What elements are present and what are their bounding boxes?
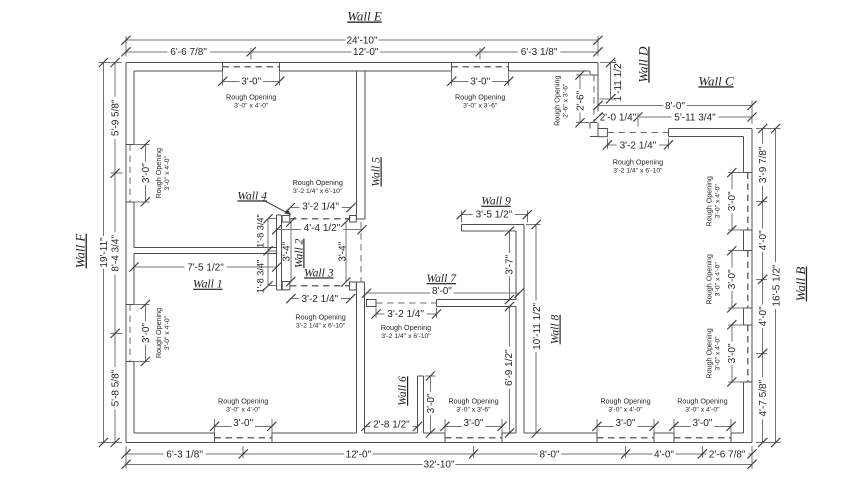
svg-text:8'-0": 8'-0" xyxy=(665,101,685,112)
svg-text:2'-6 7/8": 2'-6 7/8" xyxy=(709,449,746,460)
svg-text:3'-2 1/4": 3'-2 1/4" xyxy=(387,309,424,320)
wall C stub block next to wall D xyxy=(598,129,607,137)
svg-text:Rough Opening: Rough Opening xyxy=(704,254,713,304)
wall F opening 1 dashed center + caps xyxy=(129,145,131,202)
svg-text:Rough Opening: Rough Opening xyxy=(226,93,276,102)
svg-text:Wall B: Wall B xyxy=(793,267,808,302)
svg-text:3'-0" x 4'-0": 3'-0" x 4'-0" xyxy=(608,406,643,413)
wall 1 (horizontal) xyxy=(134,247,277,249)
wall 3 right block xyxy=(350,282,357,290)
svg-text:5'-8 5/8": 5'-8 5/8" xyxy=(111,369,122,406)
wall 7 block at left end xyxy=(367,300,377,307)
dim 12-0 xyxy=(352,46,380,57)
svg-text:Rough Opening: Rough Opening xyxy=(677,396,727,405)
svg-text:6'-3 1/8": 6'-3 1/8" xyxy=(166,449,203,460)
wall 4 opening dashed center xyxy=(290,218,350,220)
svg-text:3'-0" x 3'-6": 3'-0" x 3'-6" xyxy=(463,103,498,110)
dim column left inner xyxy=(114,63,116,443)
svg-text:3'-0": 3'-0" xyxy=(692,418,712,429)
svg-text:3'-0" x 4'-0": 3'-0" x 4'-0" xyxy=(685,406,720,413)
wall B inner face segments xyxy=(743,137,745,173)
bottom wall opening 3 dashed + caps xyxy=(597,437,654,439)
dim 3-4 right (square) xyxy=(345,222,347,282)
rough opening label wall F xyxy=(154,308,171,358)
svg-text:3'-0": 3'-0" xyxy=(141,163,152,183)
dim 6-3 1/8 xyxy=(518,46,560,57)
dim 6-9 1/2 (wall 7 to bottom) xyxy=(509,307,511,434)
label Wall 2 xyxy=(292,238,305,268)
wall 7 opening dashed center xyxy=(376,302,437,304)
wall 9 (horizontal) xyxy=(461,224,524,226)
svg-text:2'-6": 2'-6" xyxy=(575,90,586,110)
svg-text:3'-0" x 4'-0": 3'-0" x 4'-0" xyxy=(164,155,171,190)
label Wall 5 xyxy=(370,157,383,187)
svg-text:Wall 6: Wall 6 xyxy=(396,376,409,406)
bottom wall outer face xyxy=(126,442,752,444)
svg-text:3'-9 7/8": 3'-9 7/8" xyxy=(758,146,769,183)
bottom dim row 1 xyxy=(126,453,752,455)
dim 8-0 (wall C overall) xyxy=(598,104,752,106)
wall E opening 2 (3-0 x 3-6) dashed center + caps xyxy=(452,66,509,68)
dim 2-6 (wall D opening) xyxy=(576,74,589,76)
svg-text:Rough Opening: Rough Opening xyxy=(218,396,268,405)
wall 3 left block xyxy=(282,282,290,290)
svg-text:3'-5 1/2": 3'-5 1/2" xyxy=(476,209,513,220)
svg-text:19'-11": 19'-11" xyxy=(99,237,110,268)
wall 6 (short vertical) xyxy=(417,376,419,433)
extension lines top corners xyxy=(125,36,127,57)
wall F inner face segments xyxy=(133,71,135,145)
wall E inner face segments xyxy=(134,70,223,72)
svg-text:3'-0" x 4'-0": 3'-0" x 4'-0" xyxy=(234,103,269,110)
svg-text:3'-7": 3'-7" xyxy=(505,254,516,274)
wall F opening 2 dashed center + caps xyxy=(129,305,131,362)
svg-text:3'-2 1/4": 3'-2 1/4" xyxy=(620,140,657,151)
label Wall D xyxy=(635,46,650,83)
svg-text:8'-0": 8'-0" xyxy=(432,286,452,297)
dim 3-2 1/4 (wall 3 opening) xyxy=(291,298,351,300)
svg-text:3'-0": 3'-0" xyxy=(727,343,738,363)
svg-text:Wall 4: Wall 4 xyxy=(237,189,267,202)
svg-text:3'-0" x 4'-0": 3'-0" x 4'-0" xyxy=(226,406,261,413)
wall E opening 1 (3-0 x 4-0) dashed center + caps xyxy=(223,66,280,68)
wall F outer face xyxy=(125,63,127,443)
svg-text:3'-2 1/4" x 6'-10": 3'-2 1/4" x 6'-10" xyxy=(293,188,343,195)
svg-text:3'-0" x 3'-6": 3'-0" x 3'-6" xyxy=(456,406,491,413)
svg-text:3'-0": 3'-0" xyxy=(141,323,152,343)
dim 19-11 (left overall) xyxy=(102,63,104,443)
svg-text:2'-0 1/4": 2'-0 1/4" xyxy=(600,112,637,123)
svg-text:Wall 3: Wall 3 xyxy=(304,266,334,279)
svg-text:Rough Opening: Rough Opening xyxy=(381,323,431,332)
svg-text:3'-2 1/4" x 6'-10": 3'-2 1/4" x 6'-10" xyxy=(613,168,663,175)
svg-text:3'-0" x 4'-0": 3'-0" x 4'-0" xyxy=(714,336,721,371)
svg-text:10'-11 1/2": 10'-11 1/2" xyxy=(532,302,543,349)
svg-text:3'-4": 3'-4" xyxy=(282,241,293,261)
svg-text:7'-5 1/2": 7'-5 1/2" xyxy=(187,262,224,273)
svg-text:3'-0": 3'-0" xyxy=(426,393,437,413)
dim 24-10 (top overall) xyxy=(126,39,598,41)
wall 2 (vertical solid) xyxy=(276,215,278,290)
wall B outer face xyxy=(751,129,753,443)
wall B opening 2 dashed + caps xyxy=(747,251,749,308)
svg-text:16'-5 1/2": 16'-5 1/2" xyxy=(771,264,782,307)
svg-text:5'-11 3/4": 5'-11 3/4" xyxy=(674,112,716,123)
svg-text:6'-6 7/8": 6'-6 7/8" xyxy=(170,47,207,58)
svg-text:8'-4 3/4": 8'-4 3/4" xyxy=(111,235,122,272)
wall B opening dims 3-0 x3 xyxy=(728,172,744,174)
wall 8 (vertical) xyxy=(515,231,517,300)
svg-text:Rough Opening: Rough Opening xyxy=(293,178,343,187)
wall D inner face segments xyxy=(589,71,591,75)
svg-text:3'-2 1/4": 3'-2 1/4" xyxy=(302,294,339,305)
bottom opening dims 3-0 x4 xyxy=(214,419,216,433)
svg-text:Rough Opening: Rough Opening xyxy=(154,308,163,358)
svg-text:2'-8 1/2": 2'-8 1/2" xyxy=(373,420,410,431)
svg-text:24'-10": 24'-10" xyxy=(346,36,377,47)
dim 16-5 1/2 (right overall) xyxy=(775,129,777,443)
svg-text:Wall 7: Wall 7 xyxy=(427,272,458,285)
dim 10-11 1/2 (wall 8) xyxy=(535,225,537,434)
bottom wall opening 2 dashed + caps xyxy=(445,437,502,439)
wall F opening dims 3-0 x2 xyxy=(134,144,150,146)
svg-text:Wall E: Wall E xyxy=(347,8,382,23)
svg-text:3'-0": 3'-0" xyxy=(727,191,738,211)
svg-text:3'-4": 3'-4" xyxy=(338,241,349,261)
svg-text:4'-0": 4'-0" xyxy=(758,230,769,250)
svg-text:4'-0": 4'-0" xyxy=(654,449,674,460)
svg-text:Wall 2: Wall 2 xyxy=(292,238,305,268)
lower vertical wall xyxy=(355,282,357,433)
svg-text:4'-0": 4'-0" xyxy=(758,306,769,326)
svg-text:Rough Opening: Rough Opening xyxy=(154,148,163,198)
svg-text:4'-7 5/8": 4'-7 5/8" xyxy=(758,379,769,416)
svg-text:1'-8 3/4": 1'-8 3/4" xyxy=(255,260,265,294)
wall D outer face xyxy=(597,63,599,137)
svg-text:3'-0": 3'-0" xyxy=(464,418,484,429)
label Wall 6 xyxy=(396,376,409,406)
extension line right of wall C corner xyxy=(751,101,753,125)
rough opening label wall F xyxy=(154,148,171,198)
dim 2-8 1/2 (to wall 6) xyxy=(366,425,418,427)
dim column right inner xyxy=(762,129,764,443)
svg-text:Wall D: Wall D xyxy=(635,46,650,83)
svg-text:3'-0" x 4'-0": 3'-0" x 4'-0" xyxy=(164,315,171,350)
dim 8-0 (wall 7) xyxy=(367,292,520,294)
wall B opening 3 dashed + caps xyxy=(747,325,749,382)
svg-text:Rough Opening: Rough Opening xyxy=(704,328,713,378)
wall 4 left block xyxy=(282,216,290,223)
svg-text:Rough Opening: Rough Opening xyxy=(553,76,562,126)
dim 3-7 (wall 9 to wall 7) xyxy=(509,231,511,300)
svg-text:Wall 5: Wall 5 xyxy=(370,157,383,187)
svg-text:Wall C: Wall C xyxy=(698,73,734,88)
extension lines bottom corners xyxy=(125,446,127,469)
svg-text:Wall 9: Wall 9 xyxy=(481,195,511,208)
wall 7 solid segment xyxy=(437,299,517,301)
svg-text:1'-8 3/4": 1'-8 3/4" xyxy=(255,214,265,248)
wall C opening (3-2 1/4 x 6-10) dashed center xyxy=(607,132,668,134)
dim 3-4 left (square) xyxy=(290,222,292,282)
svg-text:Wall F: Wall F xyxy=(73,233,88,269)
dim 3-2 1/4 (wall 4 opening) xyxy=(290,207,351,209)
dim 1-8 3/4 pair (left of wall 2) xyxy=(267,219,269,286)
extension lines right corners xyxy=(756,128,781,130)
svg-text:3'-0" x 4'-0": 3'-0" x 4'-0" xyxy=(714,184,721,219)
wall 4 right block xyxy=(350,216,357,223)
dim line top row 2 xyxy=(126,51,598,53)
dim 3-0 (wall 6 length) xyxy=(429,376,431,433)
rough opening label wall B xyxy=(704,328,721,378)
label Wall F xyxy=(73,233,88,269)
svg-text:32'-10": 32'-10" xyxy=(423,460,454,471)
rough opening label wall D xyxy=(553,76,570,126)
dim 3-2 1/4 (wall C opening) xyxy=(606,139,608,150)
svg-text:5'-9 5/8": 5'-9 5/8" xyxy=(111,99,122,136)
svg-text:3'-0": 3'-0" xyxy=(233,418,253,429)
svg-text:3'-0" x 4'-0": 3'-0" x 4'-0" xyxy=(714,262,721,297)
svg-text:12'-0": 12'-0" xyxy=(346,449,372,460)
svg-text:Rough Opening: Rough Opening xyxy=(704,176,713,226)
svg-text:3'-0": 3'-0" xyxy=(470,77,490,88)
leader line wall 4 xyxy=(263,200,290,214)
svg-text:3'-2 1/4" x 6'-10": 3'-2 1/4" x 6'-10" xyxy=(296,322,346,329)
square room right opening dashed center (in wall 5 line) xyxy=(360,222,362,282)
wall E outer face xyxy=(126,62,598,64)
bottom wall opening 1 dashed + caps xyxy=(215,437,272,439)
wall 5 (vertical from wall E) xyxy=(356,71,358,219)
svg-text:6'-3 1/8": 6'-3 1/8" xyxy=(521,47,558,58)
dim 4-4 1/2 (square width) xyxy=(277,229,362,231)
svg-text:8'-0": 8'-0" xyxy=(540,449,560,460)
svg-text:3'-0": 3'-0" xyxy=(616,418,636,429)
wall C solid segment xyxy=(668,128,752,130)
svg-text:Rough Opening: Rough Opening xyxy=(600,396,650,405)
svg-text:Rough Opening: Rough Opening xyxy=(455,93,505,102)
bottom wall inner face segments xyxy=(134,432,215,434)
wall D opening (2-6 x 3-6) dashed + caps xyxy=(593,75,595,123)
dim 1-11 1/2 (wall D) xyxy=(600,62,615,64)
wall E opening 2 dim 3-0 xyxy=(451,71,453,86)
wall 3 opening dashed center xyxy=(290,285,350,287)
svg-text:3'-2 1/4": 3'-2 1/4" xyxy=(302,202,339,213)
svg-text:6'-9 1/2": 6'-9 1/2" xyxy=(504,349,515,386)
dim 3-2 1/4 (wall 7 opening) xyxy=(375,308,377,319)
svg-text:4'-4 1/2": 4'-4 1/2" xyxy=(304,223,341,234)
svg-text:3'-0": 3'-0" xyxy=(241,77,261,88)
svg-text:Wall 8: Wall 8 xyxy=(549,315,562,345)
wall D bottom cap xyxy=(590,136,598,138)
wall E opening 1 dim 3-0 xyxy=(222,71,224,86)
svg-text:12'-0": 12'-0" xyxy=(353,47,379,58)
rough opening label wall B xyxy=(704,176,721,226)
dim 2-0 1/4 and 5-11 3/4 xyxy=(598,116,752,118)
tick marks and overlay stubs xyxy=(121,36,130,45)
extension lines left corners xyxy=(99,62,123,64)
svg-text:Rough Opening: Rough Opening xyxy=(613,158,663,167)
dim 3-5 1/2 (wall 9) xyxy=(460,211,462,223)
rough opening label wall B xyxy=(704,254,721,304)
svg-text:3'-0": 3'-0" xyxy=(727,269,738,289)
dim 7-5 1/2 (wall 1) xyxy=(134,266,277,268)
svg-text:2'-6" x 3'-6": 2'-6" x 3'-6" xyxy=(563,83,570,118)
svg-text:Rough Opening: Rough Opening xyxy=(448,396,498,405)
label Wall B xyxy=(793,267,808,302)
label Wall 8 xyxy=(549,315,562,345)
bottom wall opening 4 dashed + caps xyxy=(674,437,731,439)
svg-text:Wall 1: Wall 1 xyxy=(193,278,223,291)
wall B opening 1 dashed + caps xyxy=(747,173,749,230)
svg-text:Rough Opening: Rough Opening xyxy=(295,312,345,321)
svg-text:3'-2 1/4" x 6'-10": 3'-2 1/4" x 6'-10" xyxy=(381,333,431,340)
dim 6-6 7/8 xyxy=(167,46,209,57)
dim 32-10 (bottom overall) xyxy=(126,463,752,465)
